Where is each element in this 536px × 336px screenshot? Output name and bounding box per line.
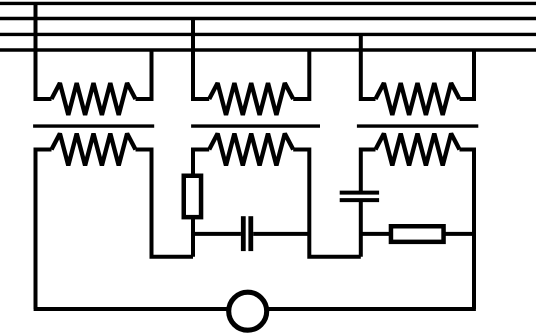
transformer T1 core bar (33, 124, 154, 127)
transformer T1 secondary winding (52, 134, 136, 166)
bus line L2 (phase B) (0, 17, 536, 20)
capacitor C2 top plate (340, 191, 379, 195)
wire: T1 primary right lead from L4 (136, 50, 152, 99)
transformer T3 primary winding (376, 83, 460, 115)
bus line L3 (phase C) (0, 33, 536, 36)
wire: T2 primary left lead from L2 (193, 19, 209, 100)
transformer T3 secondary winding (376, 134, 460, 166)
wire: capacitor C1 right plate to T2 right post (253, 232, 309, 236)
transformer T2 primary winding (209, 83, 293, 115)
wire: T1 secondary left lead down to bottom rail (36, 150, 52, 310)
transformer T3 core bar (357, 124, 478, 127)
wire: T3 secondary left lead down to capacitor C2 top plate (361, 150, 376, 193)
wire: T3 primary left lead from L3 (361, 34, 376, 99)
bus line L1 (phase A) (0, 2, 536, 5)
source G1 (circle) (229, 292, 267, 330)
capacitor C2 bottom plate (340, 198, 379, 202)
wire: bottom rail (34, 307, 476, 311)
wire: capacitor C2 stem below bottom plate (359, 200, 363, 257)
bus line L4 (neutral) (0, 48, 536, 51)
transformer T2 secondary winding (209, 134, 293, 166)
resistor R1 (vertical box) (184, 176, 201, 217)
wire: T1 primary left lead from L1 (36, 3, 52, 99)
wire: T2 primary right lead from L4 (293, 50, 309, 99)
wire: T2 secondary right lead down, U to capacitor C2 stem (293, 150, 361, 257)
wire: T1 secondary right lead down, U to node below R1 (136, 150, 194, 257)
transformer T1 primary winding (52, 83, 136, 115)
wire: mid rail from R1 branch to capacitor C1 left plate (193, 232, 241, 236)
wire: C2 stem branch through R2 to T3 right post (361, 232, 474, 236)
wire: T3 primary right lead from L4 (460, 50, 475, 99)
capacitor C1 right plate (248, 216, 253, 251)
resistor R2 (horizontal box) (391, 226, 444, 242)
wire: T2 secondary left lead down through R1 position (193, 150, 209, 257)
wire: T3 secondary right lead down to bottom rail (460, 150, 475, 310)
transformer T2 core bar (191, 124, 320, 127)
capacitor C1 left plate (241, 216, 246, 251)
